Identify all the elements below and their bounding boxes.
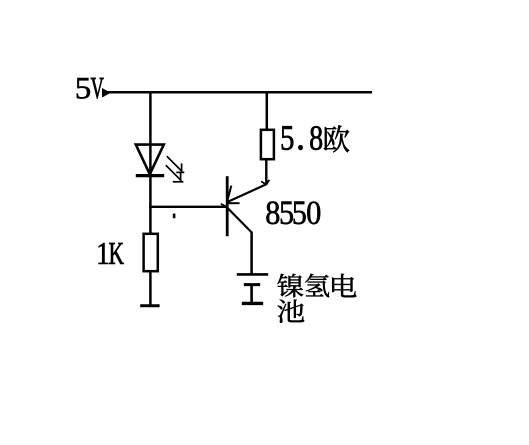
wire: base node to Q1 base (with small arrow) bbox=[149, 204, 226, 207]
wire: Q1 collector to battery bbox=[250, 232, 253, 274]
LED D1 anode triangle bbox=[136, 145, 164, 175]
transistor Q1 base bar bbox=[226, 176, 229, 236]
node: 5V supply terminal arrow bbox=[102, 88, 111, 98]
LED D1 light emission arrow 1 bbox=[167, 156, 185, 172]
label: BT1 镍氢电池 line 2 bbox=[278, 300, 305, 323]
wire: R2 to Q1 emitter (arrow down) bbox=[261, 159, 269, 185]
wire: rail to R2 bbox=[266, 91, 269, 130]
transistor Q1 emitter with arrowhead at bar bbox=[227, 184, 266, 203]
label: R1 value 1K bbox=[99, 243, 124, 264]
battery BT1 bottom terminal bar bbox=[242, 302, 263, 305]
wire: R1 to ground bbox=[149, 271, 152, 305]
LED D1 light emission arrow 2 bbox=[166, 165, 184, 182]
wire: rail to LED anode bbox=[149, 91, 152, 175]
label: Q1 type 8550 bbox=[266, 201, 320, 224]
label: R2 value 5.8欧 bbox=[282, 125, 349, 152]
ground bar bbox=[140, 304, 159, 307]
label: net 5V bbox=[77, 78, 104, 99]
label: BT1 镍氢电池 line 1 bbox=[277, 274, 356, 297]
wire: +5V horizontal rail bbox=[108, 91, 372, 94]
junction tick below base wire bbox=[173, 214, 176, 219]
wire: LED cathode to base node and R1 bbox=[149, 176, 152, 234]
wire: battery negative stem bbox=[250, 285, 253, 303]
resistor R2 5.8 ohm body bbox=[261, 130, 274, 159]
resistor R1 1K body bbox=[144, 234, 158, 271]
LED D1 cathode bar bbox=[136, 174, 164, 177]
battery BT1 positive plate (long) bbox=[237, 273, 268, 276]
battery BT1 negative plate (short) bbox=[244, 283, 260, 286]
transistor Q1 collector bbox=[227, 208, 251, 233]
